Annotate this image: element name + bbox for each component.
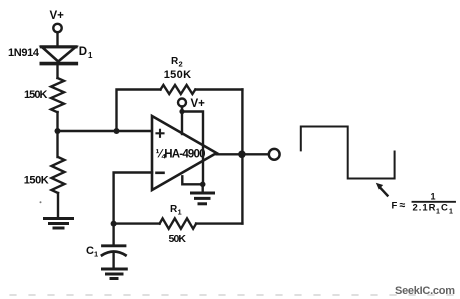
- wire junction to R1: [114, 222, 160, 224]
- wire C1 to ground: [112, 253, 114, 269]
- node A (junction dot): [55, 128, 61, 134]
- svg-text:1: 1: [94, 250, 98, 259]
- wire R to node A: [56, 112, 58, 157]
- wire diode to R: [56, 64, 58, 78]
- resistor R2 150K: [161, 56, 196, 94]
- svg-text:D: D: [79, 46, 87, 58]
- wire node A to + input: [58, 130, 153, 132]
- scan artifact speck: [40, 201, 42, 203]
- svg-text:2.1R: 2.1R: [413, 203, 436, 214]
- junction dot (R1 / C1): [111, 221, 117, 227]
- resistor 150K (lower): [24, 157, 65, 193]
- svg-text:150K: 150K: [24, 89, 48, 101]
- junction dot (op-amp ground): [200, 182, 206, 188]
- svg-text:≈: ≈: [400, 199, 406, 211]
- svg-text:V+: V+: [191, 98, 206, 110]
- ground (left): [45, 219, 73, 229]
- resistor 150K (upper): [24, 78, 64, 112]
- ground (op-amp): [192, 193, 214, 204]
- wire R1 to right rail: [196, 222, 242, 224]
- junction dot (supply): [179, 109, 184, 114]
- resistor R1 50K: [160, 204, 197, 245]
- svg-text:F: F: [392, 201, 398, 212]
- wire op-amp output: [217, 153, 269, 155]
- svg-text:1: 1: [449, 208, 453, 215]
- formula F = 1/(2.1 R1 C1): [392, 191, 456, 215]
- ground (C1): [103, 269, 127, 279]
- arrow (points to waveform): [376, 183, 388, 196]
- svg-text:1: 1: [431, 191, 436, 201]
- wire junction to C1: [112, 224, 114, 245]
- square wave symbol: [301, 127, 395, 179]
- wire V- pin stub: [182, 176, 203, 184]
- svg-text:150K: 150K: [164, 69, 191, 81]
- wire R to ground: [57, 193, 59, 218]
- svg-text:1N914: 1N914: [8, 47, 40, 59]
- wire to ground: [201, 184, 203, 193]
- svg-text:150K: 150K: [24, 175, 49, 187]
- svg-text:V+: V+: [50, 10, 65, 22]
- svg-text:2: 2: [179, 60, 183, 69]
- capacitor C1: [86, 245, 126, 259]
- svg-text:1: 1: [178, 208, 182, 217]
- terminal V+ (op-amp supply): [178, 98, 205, 110]
- diode D1: [8, 46, 93, 63]
- wire supply loop to ground rail: [182, 112, 203, 185]
- wire V+ to diode: [56, 33, 58, 47]
- wire R2 to right rail: [196, 88, 243, 90]
- svg-text:¼HA-4900: ¼HA-4900: [156, 148, 206, 160]
- svg-text:1: 1: [88, 51, 93, 60]
- scan artifact bottom edge: [10, 294, 458, 296]
- op-amp U1 (1/4 HA-4900): [152, 116, 217, 190]
- svg-text:1: 1: [436, 208, 440, 215]
- wire - input: [114, 173, 152, 224]
- terminal V+ (top left): [50, 10, 65, 32]
- svg-text:50K: 50K: [169, 233, 187, 245]
- wire supply pin into op-amp top edge: [181, 112, 183, 135]
- junction dot (feedback to + input): [114, 128, 120, 134]
- svg-text:SeekIC.com: SeekIC.com: [395, 285, 455, 297]
- right feedback rail (vertical wire): [241, 90, 243, 224]
- svg-text:C: C: [86, 245, 94, 257]
- wire feedback branch up and to R2: [117, 90, 161, 132]
- terminal output (open circle): [269, 149, 280, 160]
- junction dot (output node): [238, 151, 246, 159]
- wire V+ stub to junction: [181, 107, 183, 112]
- svg-text:C: C: [441, 203, 448, 214]
